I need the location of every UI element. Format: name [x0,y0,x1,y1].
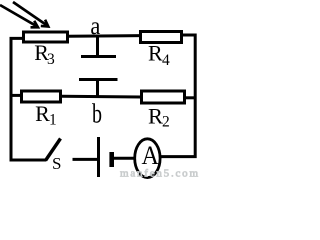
svg-text:2: 2 [162,114,170,131]
svg-text:R: R [35,101,50,126]
svg-text:b: b [92,97,102,128]
svg-text:S: S [52,154,61,173]
svg-text:A: A [142,140,159,170]
svg-text:manfen5.com: manfen5.com [120,168,198,180]
svg-text:a: a [90,13,100,40]
svg-text:4: 4 [162,52,170,69]
svg-text:1: 1 [49,112,57,129]
svg-text:R: R [148,41,163,66]
svg-text:R: R [148,104,163,129]
svg-text:3: 3 [47,51,55,68]
